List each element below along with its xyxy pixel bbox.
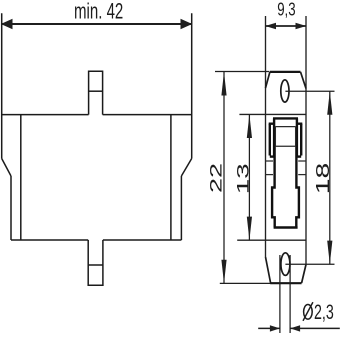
node bottom mounting slot: [281, 253, 290, 276]
wire body bottom full line + 13 extension: [237, 239, 306, 241]
wire cap-collar step left: [270, 155, 274, 157]
svg-text:22: 22: [207, 163, 225, 193]
wire collar left top: [269, 122, 273, 124]
wire dia dimension line left: [258, 327, 280, 329]
wire body bottom line: [11, 239, 181, 241]
wire cap-collar step right: [297, 155, 301, 157]
wire slot right extension: [289, 255, 291, 333]
plate edges: [237, 16, 306, 265]
wire right outer edge: [191, 13, 193, 158]
dimension 13: [248, 114, 250, 240]
wire slot left extension: [279, 255, 281, 333]
node bottom tab: [88, 240, 103, 285]
wire tube right side: [296, 146, 299, 227]
wire left chamfer: [2, 159, 11, 177]
wire 22 bottom extension: [220, 282, 271, 284]
wire step line left b: [265, 174, 273, 176]
wire step line left a: [265, 160, 273, 162]
wire collar left side: [269, 124, 271, 156]
wire body top full line + 13 extension: [239, 113, 306, 115]
svg-text:9,3: 9,3: [277, 0, 295, 19]
latch assembly thick parts: [269, 118, 303, 227]
wire 18 dimension line: [329, 91, 331, 264]
node top tab: [89, 71, 103, 114]
wire top tab inner line: [89, 90, 103, 92]
wire window inner right: [295, 127, 297, 147]
wire flange bottom left chamfer: [266, 257, 271, 283]
wire collar right top: [298, 122, 302, 124]
wire left outer edge: [1, 13, 3, 158]
flange top: [270, 71, 301, 73]
wire flange bottom right chamfer: [302, 265, 306, 284]
wire 13 dimension line: [248, 114, 250, 240]
diameter symbol: [303, 302, 313, 321]
wire cap inner bottom line: [275, 145, 295, 147]
wire window inner left: [274, 127, 276, 147]
wire dia dimension line right: [290, 327, 340, 329]
svg-text:18: 18: [313, 163, 333, 195]
wire flange top edge: [270, 71, 301, 73]
svg-text:min. 42: min. 42: [74, 0, 123, 24]
dimension 18: [285, 91, 334, 264]
wire cap inner top line: [275, 126, 295, 128]
node top mounting slot: [281, 80, 289, 102]
dimension 22: [215, 72, 271, 284]
wire flange top right chamfer: [301, 72, 307, 89]
wire left lower edge: [10, 176, 12, 240]
wire step line right a: [298, 160, 306, 162]
wire inner right vertical: [170, 115, 172, 240]
wire cap top edge: [273, 117, 298, 119]
wire 22 top extension: [215, 71, 269, 73]
wire body top line: [2, 114, 192, 116]
wire tube left side: [272, 146, 275, 227]
wire 22 dimension line: [223, 72, 225, 284]
wire plate right edge + 9,3 extension: [305, 16, 307, 265]
wire foot bottom edge: [274, 226, 298, 228]
svg-text:2,3: 2,3: [314, 301, 334, 324]
dimension dia 2,3: [258, 255, 340, 333]
wire collar right side: [300, 124, 302, 156]
wire cap left side: [273, 118, 275, 157]
wire plate left edge + 9,3 extension: [265, 16, 267, 257]
wire flange bottom edge: [270, 282, 301, 284]
wire right chamfer: [181, 159, 191, 177]
wire 18 bottom extension: [285, 263, 334, 265]
latch thin inner lines: [265, 127, 306, 175]
wire 18 top extension: [285, 90, 334, 92]
wire cap right side: [296, 118, 298, 157]
dimension 9,3: [266, 25, 307, 27]
wire flange top left chamfer: [266, 72, 270, 88]
wire inner left vertical: [20, 115, 22, 240]
wire bottom tab inner line: [88, 264, 103, 266]
wire right lower edge: [180, 176, 182, 240]
svg-text:13: 13: [234, 163, 252, 194]
wire step line right b: [298, 174, 306, 176]
dimension min.42: [2, 23, 192, 25]
